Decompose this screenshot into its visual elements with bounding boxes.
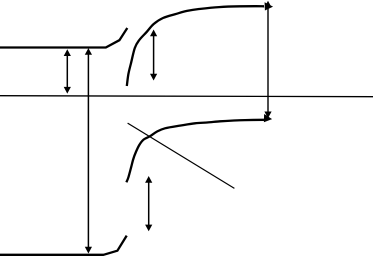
double arrow A (left, band line to axis) (64, 49, 71, 93)
long double arrow B (top band to bottom band) (85, 48, 92, 253)
top-left band line (0, 28, 127, 48)
bottom curve (126, 115, 271, 183)
bottom curve end arrowhead (264, 115, 271, 122)
bottom-left band line (0, 236, 127, 255)
double arrow D (lower middle) (145, 176, 152, 231)
top curve (127, 3, 273, 86)
double arrow C (upper middle) (150, 30, 157, 81)
top curve end arrowhead (265, 3, 273, 10)
horizontal axis (0, 96, 373, 97)
diagonal line (128, 123, 235, 188)
right vertical double arrow E (264, 1, 271, 119)
